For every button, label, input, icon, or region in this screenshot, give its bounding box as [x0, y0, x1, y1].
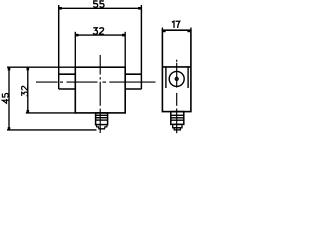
- side view inner wall left: [165, 67, 167, 88]
- front nozzle cap stepped outline: [96, 125, 107, 129]
- dimension 17 arrow dot right: [187, 30, 190, 33]
- dimension 32 left text (rotated): [22, 86, 28, 96]
- dimension 45 arrow dot top: [8, 68, 11, 71]
- dimension 32 top line: [75, 34, 125, 36]
- front nozzle cap bottom shade: [99, 128, 105, 130]
- front nozzle thread line 1: [96, 114, 108, 116]
- dimension 45 line: [8, 67, 10, 130]
- dimension 45 top extension line: [7, 66, 75, 68]
- side nozzle thread line 3: [171, 119, 184, 121]
- side nozzle body: [171, 112, 184, 125]
- side nozzle thread line 2: [171, 117, 184, 119]
- dimension 32 top right extension: [124, 32, 126, 67]
- side view hole center dot: [175, 77, 178, 80]
- dimension 17 text: [172, 21, 174, 28]
- dimension 32 top left extension: [74, 32, 76, 67]
- dimension 55 left extension / left ear left edge: [58, 5, 60, 89]
- dimension 32 top text: [93, 28, 97, 34]
- front vertical centerline: [99, 55, 101, 75]
- dimension 55 right extension / right ear right edge: [140, 5, 142, 89]
- dimension 45 text (rotated): [2, 93, 8, 103]
- front nozzle thread line 2: [96, 117, 108, 119]
- side view divider line: [162, 66, 191, 68]
- dimension 32 top arrow dot left: [76, 34, 79, 37]
- front view block outline: [75, 67, 125, 113]
- dimension 32 left arrow dot bottom: [27, 110, 30, 113]
- dimension 55 line: [59, 7, 142, 9]
- dimension 17 left extension stub: [161, 28, 163, 31]
- right ear bottom edge: [125, 88, 141, 90]
- dimension 17 right extension stub: [190, 28, 192, 31]
- left ear bottom edge: [59, 88, 76, 90]
- dimension 32 top arrow dot right: [122, 34, 125, 37]
- right ear top edge: [125, 73, 141, 75]
- left ear top edge: [59, 73, 76, 75]
- front nozzle body: [96, 113, 108, 125]
- front nozzle thread line 3: [96, 119, 108, 121]
- dimension 55 arrow dot right: [138, 7, 141, 10]
- dimension 32 left arrow dot top: [27, 68, 30, 71]
- dimension 32 left bottom extension line: [26, 112, 76, 114]
- front horizontal centerline: [36, 81, 58, 83]
- side nozzle cap step 1: [173, 124, 182, 127]
- side view inner wall right: [187, 67, 189, 88]
- dimension 17 arrow dot left: [163, 30, 166, 33]
- dimension 45 bottom extension line: [7, 129, 97, 131]
- side nozzle thread line 1: [171, 114, 184, 116]
- side vertical centerline: [176, 60, 178, 62]
- dimension 32 left line: [27, 67, 29, 113]
- dimension 55 text: [94, 1, 98, 7]
- side view hole circle: [169, 71, 184, 86]
- side nozzle cap step 2: [174, 128, 180, 130]
- dimension 55 arrow dot left: [59, 7, 62, 10]
- side view outer box: [162, 30, 191, 111]
- dimension 45 arrow dot bottom: [8, 127, 11, 130]
